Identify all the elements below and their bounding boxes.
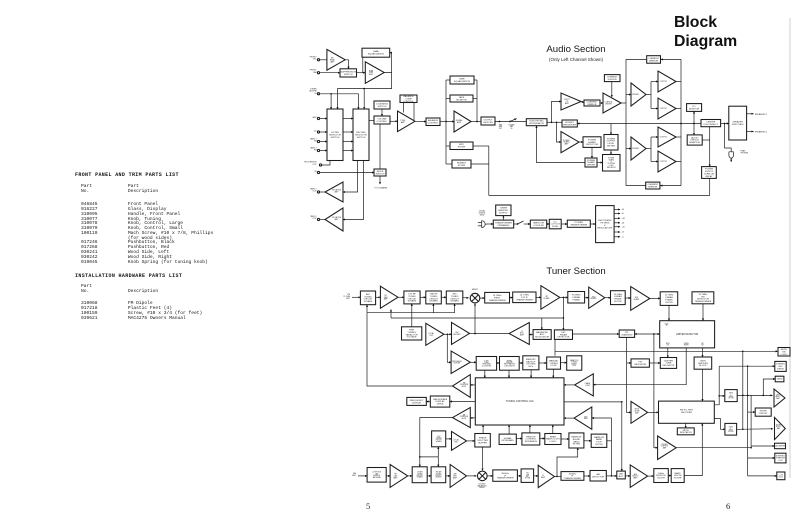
block rear panel light logic	[545, 434, 561, 445]
svg-text:LOOPSTICKAMFERRITEANTENNA: LOOPSTICKAMFERRITEANTENNA	[372, 472, 382, 479]
block remote control interface	[522, 433, 540, 445]
svg-text:NOISECIRCUIT: NOISECIRCUIT	[759, 411, 769, 415]
svg-text:10.7 MHz1ST IFTRANSFORMER: 10.7 MHz1ST IFTRANSFORMER	[516, 295, 533, 302]
wire limiters block to MPX	[702, 369, 704, 401]
svg-text:POWERGUARDDRIVER: POWERGUARDDRIVER	[587, 160, 596, 167]
op-amp output C	[658, 127, 676, 147]
op-amp 3rd IF amp	[631, 287, 650, 311]
junction 1st IF out	[563, 297, 565, 299]
svg-text:ANTTUNEDCIRCUITW/VARS: ANTTUNEDCIRCUITW/VARS	[364, 293, 374, 303]
wire AGC to AM audio amp	[625, 475, 630, 477]
wire AGC to RF amp	[390, 310, 392, 319]
wire supply output +5	[614, 236, 620, 238]
junction AGC det	[563, 317, 565, 319]
svg-text:OSCBUFFER: OSCBUFFER	[453, 332, 461, 336]
op-amp output A	[658, 71, 676, 92]
mixer FM	[470, 293, 480, 303]
wire top loop mirror to rail	[626, 58, 647, 60]
wire tape loop right rail	[476, 80, 478, 122]
block 2nd RF tuned circuit	[426, 291, 442, 304]
junction left audio b	[747, 395, 749, 397]
wire left audio line	[737, 394, 772, 396]
terminal tape 1 out	[317, 191, 319, 193]
block 1st AM tuned circuit	[412, 467, 427, 483]
wire volume to tone amp	[390, 120, 398, 122]
svg-text:-28: -28	[622, 223, 625, 225]
wire AM IF amp out	[554, 475, 561, 477]
svg-text:FMCERMICFILTER: FMCERMICFILTER	[525, 473, 531, 480]
svg-text:TAPEEQUALIZATION: TAPEEQUALIZATION	[454, 77, 470, 82]
svg-text:PHASECOMP: PHASECOMP	[585, 382, 590, 387]
wire to 1st IF amp	[536, 296, 541, 298]
svg-text:TUNERMEMORYSUPPLY: TUNERMEMORYSUPPLY	[498, 208, 508, 215]
junction pilot line	[747, 365, 749, 367]
svg-text:RECORDSELECTORSWITCH: RECORDSELECTORSWITCH	[355, 132, 367, 139]
wire tape2 to selector	[320, 150, 327, 152]
block bandwidth filter	[671, 469, 684, 483]
wire 1st to 2nd tuned	[420, 296, 426, 298]
svg-text:MACRODATADISPLAYDRIVE: MACRODATADISPLAYDRIVE	[433, 398, 447, 406]
block tape monitor	[450, 95, 473, 102]
svg-text:LOCALOSC: LOCALOSC	[453, 438, 459, 443]
junction LO AGC	[474, 333, 476, 335]
wire display drive to display	[426, 401, 430, 403]
svg-text:SIGNALAMP: SIGNALAMP	[456, 119, 463, 124]
wire phono bus drop 2	[363, 89, 365, 109]
block linear phase filter	[611, 291, 626, 305]
wire filter to 2nd IF amp	[585, 297, 589, 299]
svg-text:CURRENTMIRROR: CURRENTMIRROR	[648, 58, 659, 62]
svg-text:3RDIF AMP: 3RDIF AMP	[633, 297, 640, 301]
page number 5	[366, 501, 370, 511]
terminal tuner aux	[317, 93, 319, 95]
block center tune indicator	[660, 358, 676, 369]
svg-text:TAPE 2OUT: TAPE 2OUT	[310, 215, 317, 220]
block 450k IF transformer 2	[561, 472, 584, 481]
op-amp output D	[658, 151, 676, 172]
block display drive	[430, 396, 450, 407]
svg-text:AMINTERSTAMUTE: AMINTERSTAMUTE	[460, 413, 469, 419]
block 25kHz limiters	[694, 357, 712, 369]
wire AM varactor branch	[420, 456, 439, 458]
wire varactor to 2nd AM box	[437, 457, 439, 467]
block DC monitor	[687, 104, 702, 112]
op-amp AM IF amp	[538, 465, 554, 487]
headphone jack symbol	[725, 148, 734, 162]
junction power switch contact	[517, 223, 519, 225]
wire limiter meter line	[593, 348, 686, 385]
block manual tuning logic	[547, 357, 561, 369]
wire det transformer to limiter	[702, 304, 704, 321]
block mosfet preregulator	[562, 120, 577, 127]
block frequency display	[407, 397, 427, 405]
wire attenuator to predriver	[547, 121, 562, 123]
wire LCA to FM mute	[470, 384, 475, 386]
wire loudness to volume	[381, 109, 383, 116]
wire right audio line	[737, 428, 773, 431]
wire switch to varistor	[524, 223, 531, 225]
wire AFC input line	[592, 417, 612, 419]
wire AGC to balanced modulator	[541, 318, 543, 330]
wire feedback to predriver	[577, 123, 681, 125]
svg-text:TAPE 1OUT: TAPE 1OUT	[310, 188, 317, 193]
junction speaker fuse contact b	[509, 121, 511, 123]
svg-text:RECTIFIERSFILTERS&REGULATORS: RECTIFIERSFILTERS&REGULATORS	[597, 220, 612, 229]
wire selector to volume	[369, 120, 374, 122]
wire mpx filter to rail	[473, 145, 489, 147]
wire class A driver to output stage	[621, 102, 626, 104]
svg-text:STEREOTHRESHOLD: STEREOTHRESHOLD	[776, 455, 785, 462]
wire signal amp to output devices	[471, 121, 481, 123]
svg-text:ISOLATIONAMP: ISOLATIONAMP	[332, 189, 342, 194]
wire AM mute to AM varactor line	[420, 418, 453, 467]
heading: Tuner Section	[496, 266, 656, 277]
op-amp tone/volume amp	[398, 111, 416, 132]
wire keyboard to remote	[516, 438, 522, 440]
block memory backup	[523, 356, 539, 370]
wire buffer pin to LCA	[482, 425, 484, 434]
svg-text:+28: +28	[622, 218, 625, 220]
wire output A out	[676, 81, 681, 83]
svg-text:+B: +B	[622, 209, 625, 211]
junction attenuator out a	[551, 121, 553, 123]
block FM indicator	[631, 359, 649, 367]
svg-text:19kHz&38kHzFILTER: 19kHz&38kHzFILTER	[728, 393, 734, 400]
svg-text:19kHz&38kHzFILTER: 19kHz&38kHzFILTER	[728, 426, 734, 433]
wire rail to rumble filter	[446, 163, 452, 165]
wire rail to driver lower	[626, 148, 631, 150]
svg-text:REARPANEL LIGHTLOGIC: REARPANEL LIGHTLOGIC	[546, 435, 561, 443]
wire balance comp right leg	[413, 103, 415, 121]
block AM osc tuned circuit	[432, 431, 446, 447]
svg-text:CURRENTSOURCE: CURRENTSOURCE	[607, 77, 618, 81]
wire phones drop	[724, 124, 726, 149]
installation hardware parts list title	[75, 273, 182, 279]
svg-text:BALANCECONTROL: BALANCECONTROL	[428, 119, 439, 124]
svg-text:CENTERDISCONNECT: CENTERDISCONNECT	[704, 122, 719, 126]
block rectifiers filters regulators	[596, 206, 615, 243]
svg-text:DRIVER: DRIVER	[632, 148, 639, 150]
svg-text:RFCASAMP: RFCASAMP	[393, 474, 398, 480]
svg-text:1ST AMTUNEDCIRCUITW/VARS: 1ST AMTUNEDCIRCUITW/VARS	[417, 471, 424, 479]
wire keyboard pin to LCA	[508, 425, 510, 434]
svg-text:FINETUNINGVARACTORVOLTAGE: FINETUNINGVARACTORVOLTAGE	[406, 330, 418, 339]
wire AGC amp out	[475, 333, 509, 335]
wire MPX right pin upper	[714, 396, 725, 405]
wire iso amp2 to tape2 out	[320, 219, 325, 221]
terminal tape 1 pb	[317, 140, 319, 142]
wire cd to selector	[320, 131, 327, 133]
wire blend riser	[557, 448, 578, 476]
op-amp phase comparator	[575, 374, 594, 396]
wire processor out	[322, 161, 330, 166]
block output devices	[481, 117, 495, 125]
wire iso amp1 to tape1 out	[320, 191, 325, 193]
svg-text:TRANSFORMERPRIMARIES: TRANSFORMERPRIMARIES	[495, 222, 512, 227]
svg-text:BALANCECOMPCONTROL: BALANCECOMPCONTROL	[403, 95, 414, 103]
svg-text:PROCESSOROUT: PROCESSOROUT	[304, 162, 317, 166]
svg-text:RIAAPREAMP: RIAAPREAMP	[369, 69, 374, 76]
wire fine tuning riser	[411, 304, 413, 327]
wire bottom loop mirror to rail	[626, 185, 646, 187]
wire current source drop	[611, 82, 613, 97]
subheading: Only Left Channel Shown	[496, 57, 656, 62]
wire AM ant input	[358, 475, 367, 477]
block rumble filter	[452, 160, 471, 168]
svg-text:FM75 OHMANT: FM75 OHMANT	[343, 294, 351, 300]
wire varactor to ant box	[366, 305, 368, 313]
wire whistle to bandwidth filter	[668, 475, 671, 477]
wire light logic to blend	[561, 438, 569, 440]
block limiter detector	[660, 321, 715, 348]
svg-text:AMANT: AMANT	[352, 472, 356, 477]
wire stereo bus drop	[654, 334, 658, 448]
wire stereo filter feed	[748, 457, 775, 459]
block narrow blend filter	[569, 433, 584, 448]
junction DC monitor tap	[693, 123, 695, 125]
svg-text:LOUDNESSSWITCH: LOUDNESSSWITCH	[376, 103, 389, 107]
wire selector link 1	[343, 118, 353, 120]
block line varistor	[530, 220, 546, 228]
wire head amp to suppressor switch	[345, 60, 348, 69]
op-amp prescaler divider	[451, 351, 470, 374]
wire rail to output A	[651, 81, 658, 83]
block loudness switch	[374, 101, 390, 109]
wire light pin to LCA	[552, 425, 554, 434]
junction clock bus	[621, 401, 623, 403]
block mixer tuned circuit	[446, 291, 463, 304]
op-amp 2nd IF amp	[589, 287, 605, 308]
wire IF tap rail	[611, 418, 613, 476]
wire tape eq to rail	[474, 79, 477, 81]
wire output devices to attenuator	[495, 121, 526, 123]
wire top loop to current mirror	[661, 58, 681, 60]
wire FM mute to antenna	[367, 313, 453, 386]
wire rail to driver upper	[626, 94, 631, 96]
svg-text:DCMONITOR: DCMONITOR	[689, 106, 700, 110]
block IF filter 1	[568, 292, 585, 304]
svg-text:AMMIXAMP: AMMIXAMP	[453, 473, 458, 480]
wire 2nd tuned to AM mixer	[446, 475, 450, 477]
block mode switch	[374, 169, 386, 176]
op-amp RIAA preamp	[365, 62, 384, 84]
svg-text:SIGNALKEYBOARD: SIGNALKEYBOARD	[502, 437, 515, 442]
wire varistor to fuse	[547, 223, 550, 225]
block current mirror upper	[647, 56, 661, 64]
terminal tape 2 out	[317, 218, 319, 220]
wire osc buffer out	[470, 332, 476, 334]
wire remote to light logic	[540, 438, 545, 440]
svg-text:ELECTRONICATTENUATOR: ELECTRONICATTENUATOR	[529, 121, 544, 125]
wire tap to circuit adaptor	[693, 124, 695, 135]
wire LCA to display drive	[450, 401, 476, 403]
svg-text:POWERGUARDAMP: POWERGUARDAMP	[563, 140, 570, 146]
installation list column header	[81, 284, 158, 295]
svg-text:AFCAMP: AFCAMP	[584, 415, 588, 420]
block 19k 38k filter lower	[725, 423, 737, 435]
wire remote pin to LCA	[529, 425, 531, 433]
wire varactor to 2nd RF box	[432, 304, 434, 313]
wire FM indicator to center tune	[649, 362, 660, 364]
op-amp mute noise amp	[631, 401, 648, 423]
wire output pair lower rail	[650, 137, 652, 162]
wire AM audio to whistle filter	[648, 475, 654, 477]
svg-text:VOLUMECONTROL: VOLUMECONTROL	[377, 118, 388, 122]
svg-text:PHONOMM: PHONOMM	[310, 70, 317, 74]
svg-text:OUTPUT: OUTPUT	[660, 137, 668, 139]
op-amp tape 2 isolation amp	[325, 208, 343, 231]
wire AM osc box to osc	[446, 438, 452, 440]
block 2nd IF transformer	[513, 292, 536, 303]
wire stereo amp out	[676, 447, 751, 449]
block varactor tuning supply	[567, 356, 582, 370]
wire rail to output C	[651, 136, 658, 138]
wire LCA pin memory	[530, 370, 532, 378]
terminal processor out	[319, 164, 321, 166]
wire mode filter to AM IF amp	[534, 475, 539, 477]
svg-text:FMINDICATOR: FMINDICATOR	[634, 362, 646, 366]
block 19kHz box	[775, 376, 784, 382]
block MPX filter	[450, 142, 473, 150]
svg-text:REMOTECONTROLINTERFACE: REMOTECONTROLINTERFACE	[525, 436, 538, 443]
wire power guard amp to detector	[579, 141, 583, 143]
svg-text:SPEAKERS 2: SPEAKERS 2	[755, 131, 768, 134]
wire det to mute line	[554, 339, 556, 355]
svg-text:LIMITER DETECTOR: LIMITER DETECTOR	[676, 334, 699, 336]
wire output C out	[676, 136, 681, 138]
wire osc to prescaler	[447, 334, 451, 362]
wire tuner bus drop 1	[330, 94, 332, 109]
svg-text:-15: -15	[622, 232, 625, 234]
junction local osc out	[446, 333, 448, 335]
op-amp power guard amp	[561, 132, 579, 153]
block center disconnect	[701, 120, 721, 127]
svg-text:STEREOINDDRIVE: STEREOINDDRIVE	[776, 364, 785, 371]
svg-text:10kHzWHISTLEFILTER: 10kHzWHISTLEFILTER	[656, 473, 666, 480]
block tuner memory supply	[496, 205, 511, 216]
wire rail to tape eq	[446, 79, 450, 81]
wire LCA pin serial display	[508, 370, 510, 378]
wire transformer to rectifiers	[590, 223, 595, 225]
wire supply output +B	[614, 209, 620, 211]
wire AM det to AGC	[606, 475, 617, 477]
svg-text:MEMORYBACKUPSYSTEMNiCd: MEMORYBACKUPSYSTEMNiCd	[526, 359, 536, 368]
wire fuse to transformer	[561, 223, 567, 225]
junction left audio a	[742, 395, 744, 397]
op-amp class A driver	[603, 93, 621, 113]
op-amp AFC amp	[574, 407, 592, 429]
wire manual tuning to varactor supply	[561, 362, 567, 364]
junction output node	[680, 123, 682, 125]
svg-text:2NDIF AMP: 2NDIF AMP	[591, 296, 598, 300]
junction main at tape loop right	[476, 121, 478, 123]
svg-text:POWERGUARDDETECTOR: POWERGUARDDETECTOR	[586, 139, 598, 146]
svg-text:STEREOCONTROLAMP: STEREOCONTROLAMP	[661, 444, 669, 450]
wire disconnect to speaker switches	[721, 123, 729, 125]
block mute indicator	[677, 428, 694, 435]
wire local osc to buffer	[444, 333, 452, 335]
op-amp input amp	[561, 93, 581, 110]
wire 2nd to mix tuned	[441, 296, 446, 298]
wire speakers 1 feed	[747, 113, 754, 115]
svg-text:POWERGUARD&CLIPPINGLOGICINDICA: POWERGUARD&CLIPPINGLOGICINDICATOR	[607, 157, 616, 169]
svg-text:CD: CD	[314, 130, 317, 132]
junction speaker fuse contact a	[499, 121, 501, 123]
svg-text:AUX: AUX	[313, 116, 318, 119]
wire AM RF to 1st tuned	[408, 475, 413, 477]
svg-text:2ND AMTUNEDCIRCUITW/VARS: 2ND AMTUNEDCIRCUITW/VARS	[435, 471, 442, 479]
wire limiter pin to center tune	[667, 348, 669, 358]
wire supply output -15	[614, 231, 620, 233]
block FM detector transformer	[692, 292, 714, 304]
block power supply turn-on relay	[702, 167, 717, 179]
terminal tape 2 pb	[317, 149, 319, 151]
wire power guard return	[537, 126, 586, 163]
svg-text:NARROWBANDSTOPFILTER: NARROWBANDSTOPFILTER	[594, 436, 605, 446]
wire record selector to iso amp1	[343, 161, 358, 193]
junction main at tape loop left	[445, 121, 447, 123]
wire detector to guard driver	[591, 147, 593, 158]
wire mode switch to R channel	[379, 176, 381, 184]
wire input amp to current mirror	[581, 102, 584, 103]
wire output node rail	[680, 59, 682, 185]
svg-text:OUTPUT: OUTPUT	[660, 81, 668, 83]
wire output to center disconnect	[681, 123, 701, 125]
block power output level meter	[604, 135, 618, 151]
svg-text:MIXTUNEDCIRCUITW/VARS: MIXTUNEDCIRCUITW/VARS	[450, 294, 460, 303]
junction mute line	[742, 350, 744, 352]
block time base	[476, 357, 496, 371]
block current source	[604, 75, 620, 82]
svg-text:OUTPUTDEVICES: OUTPUTDEVICES	[483, 119, 493, 123]
svg-text:BALANCEDAGCMODULATOR: BALANCEDAGCMODULATOR	[535, 331, 549, 339]
block balanced AGC modulator	[533, 330, 551, 340]
wire varactor to mix box	[454, 304, 456, 313]
svg-text:SUPPRESSORSWITCH: SUPPRESSORSWITCH	[341, 71, 357, 75]
wire to input op amp	[552, 102, 562, 123]
block 2nd AM tuned circuit	[431, 467, 446, 483]
svg-text:IFAGCAMP: IFAGCAMP	[520, 331, 525, 337]
wire limiter pin to limiters block	[702, 348, 704, 357]
wire adaptor to relay rail	[702, 139, 710, 141]
svg-text:DETFM/AMDETECTOR: DETFM/AMDETECTOR	[557, 332, 569, 339]
block FM PLL MPX decoder	[659, 401, 715, 423]
wire VFL to limiter	[635, 333, 660, 335]
wire ant box to RF amp	[376, 296, 381, 298]
wire output stage left rail	[625, 59, 627, 185]
block 19k 38k filter upper	[725, 390, 737, 402]
wire supply output +28	[614, 217, 620, 219]
block power transformer	[567, 220, 590, 227]
wire global feedback bottom	[489, 195, 710, 197]
op-amp tape 1 isolation amp	[325, 182, 343, 202]
wire RIAA amp out to eq box	[384, 53, 391, 73]
wire bottom loop to current mirror	[660, 185, 681, 187]
wire VFL drop	[627, 337, 631, 412]
svg-text:RFCASAMP: RFCASAMP	[384, 295, 389, 301]
wire 19k box feed	[763, 379, 775, 395]
wire aux to selector	[320, 118, 327, 120]
junction tuner bus	[330, 93, 332, 95]
terminal cd	[317, 131, 319, 133]
svg-text:10.7MHzFMDETECTORTRANSFORMER: 10.7MHzFMDETECTORTRANSFORMER	[694, 294, 711, 303]
wire LCA to AM mute	[470, 417, 475, 419]
svg-text:+5: +5	[622, 237, 624, 239]
wire supply output -B	[614, 213, 620, 215]
wire tuner aux line	[320, 94, 359, 109]
wire rail to output D	[651, 161, 658, 163]
wire tape loop left rail	[445, 80, 447, 164]
